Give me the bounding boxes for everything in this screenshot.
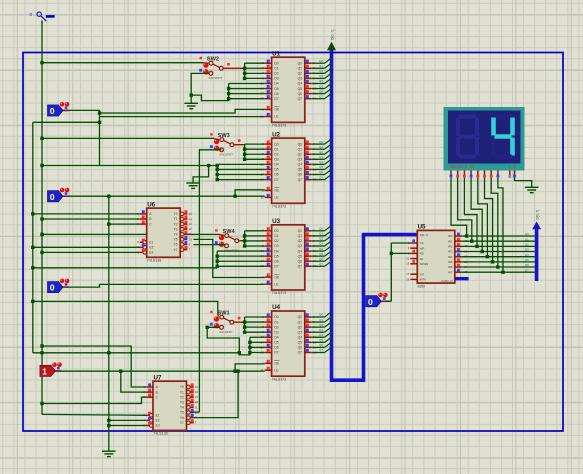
wire U5 CS from riser xyxy=(391,242,410,244)
svg-text:Q7: Q7 xyxy=(525,268,529,272)
svg-text:15: 15 xyxy=(195,385,198,389)
svg-text:Y0: Y0 xyxy=(180,385,184,389)
wire V2 left rail x=32.8 xyxy=(32,122,34,352)
wire display segment 4 to U5 IR4 xyxy=(478,178,489,259)
svg-text:OE: OE xyxy=(274,189,280,193)
bus label main xyxy=(331,30,335,40)
svg-text:IR2: IR2 xyxy=(448,245,453,249)
svg-text:Q0: Q0 xyxy=(319,140,323,144)
wire probe P4 branch to U4 OE xyxy=(233,364,264,373)
svg-text:Q1: Q1 xyxy=(319,145,323,149)
ground display xyxy=(525,187,539,192)
svg-text:D6: D6 xyxy=(274,346,278,350)
wire U5 IR rows to right bus xyxy=(462,232,535,272)
svg-text:D7: D7 xyxy=(274,97,278,101)
svg-text:Q6: Q6 xyxy=(298,173,303,177)
svg-text:WR: WR xyxy=(420,246,425,250)
wire U6 C input xyxy=(107,222,140,225)
svg-text:D0: D0 xyxy=(274,315,278,319)
svg-text:D3: D3 xyxy=(274,77,278,81)
svg-text:Q1: Q1 xyxy=(319,318,323,322)
wire V2 to P1 node xyxy=(33,117,101,166)
ground below SW2 xyxy=(184,103,198,108)
svg-text:Q4: Q4 xyxy=(298,163,303,167)
wire SW4 top throw feed from V1 xyxy=(40,233,224,236)
wire toggle to V1 xyxy=(41,21,43,23)
wire U6 Y5 to U3 OE xyxy=(193,239,264,277)
svg-text:Q0: Q0 xyxy=(319,227,323,231)
wire SW3 pole to D column xyxy=(234,144,245,146)
sheet border xyxy=(23,53,563,432)
svg-text:D3: D3 xyxy=(274,158,278,162)
svg-text:Q1: Q1 xyxy=(298,66,303,70)
svg-text:D3: D3 xyxy=(274,244,278,248)
svg-text:Y6: Y6 xyxy=(174,243,178,247)
svg-text:IR6: IR6 xyxy=(448,265,453,269)
svg-text:D[0..7]: D[0..7] xyxy=(331,30,335,40)
wire SW1 column D0-D3 xyxy=(243,317,265,334)
IC U4 74LS373 latch xyxy=(261,304,317,381)
svg-text:Q1: Q1 xyxy=(525,237,529,241)
svg-text:74LS373: 74LS373 xyxy=(272,205,286,209)
svg-text:IR1: IR1 xyxy=(448,239,453,243)
svg-text:Y3: Y3 xyxy=(174,227,178,231)
svg-text:Y4: Y4 xyxy=(180,406,184,410)
IC U2 74LS373 latch xyxy=(261,131,317,208)
svg-text:D4: D4 xyxy=(274,163,278,167)
svg-text:INT: INT xyxy=(420,272,425,276)
wire U4 Q outputs bus entries xyxy=(312,312,332,353)
svg-text:E1: E1 xyxy=(156,414,160,418)
wire probe P4 row to U4 LE xyxy=(55,370,265,372)
wire SW1 top throw feed from V2 xyxy=(31,300,219,317)
svg-text:74LS373: 74LS373 xyxy=(272,124,286,128)
svg-text:Q6: Q6 xyxy=(298,92,303,96)
svg-text:D4: D4 xyxy=(274,82,278,86)
logic probe P5 state 0 xyxy=(366,293,388,307)
IC U5 8259 interrupt controller xyxy=(406,224,468,289)
switch SW1 SPDT xyxy=(210,311,241,334)
svg-text:Q4: Q4 xyxy=(525,253,529,257)
svg-text:Q4: Q4 xyxy=(319,160,323,164)
svg-text:Q2: Q2 xyxy=(298,239,303,243)
wire U7 Y5 riser to SW3 bottom throw xyxy=(194,150,222,412)
wire row 165.5 from V1 to column xyxy=(40,164,219,167)
svg-text:8259: 8259 xyxy=(418,285,426,289)
svg-text:Q0: Q0 xyxy=(298,315,303,319)
svg-text:Y1: Y1 xyxy=(174,217,178,221)
bus arrow right xyxy=(532,221,541,229)
wire U7 E2 input xyxy=(107,419,146,422)
svg-text:Q5: Q5 xyxy=(319,252,323,256)
svg-text:IR0: IR0 xyxy=(448,234,453,238)
IC U6 74LS138 decoder xyxy=(137,201,192,262)
svg-text:15: 15 xyxy=(189,212,192,216)
svg-text:RD: RD xyxy=(420,252,424,256)
svg-text:Q7: Q7 xyxy=(319,262,323,266)
svg-text:Q3: Q3 xyxy=(298,158,303,162)
wire U7 E1 input xyxy=(42,413,146,416)
wire U6 B input xyxy=(40,217,140,220)
svg-text:Q2: Q2 xyxy=(319,323,323,327)
svg-text:Y3: Y3 xyxy=(180,401,184,405)
wire probe P5 to riser xyxy=(381,300,391,302)
wire SW1 pole to D column xyxy=(234,321,245,323)
svg-text:12: 12 xyxy=(195,400,198,404)
svg-text:D5: D5 xyxy=(274,254,278,258)
wire U6 E3 input xyxy=(40,251,140,254)
svg-text:0: 0 xyxy=(50,192,55,202)
svg-text:Q6: Q6 xyxy=(525,263,529,267)
svg-text:10: 10 xyxy=(189,237,192,241)
svg-text:Q0: Q0 xyxy=(298,61,303,65)
svg-text:Q1: Q1 xyxy=(319,64,323,68)
wire U6 A input xyxy=(31,212,140,215)
svg-text:Y5: Y5 xyxy=(180,411,184,415)
svg-text:Y2: Y2 xyxy=(174,222,178,226)
svg-text:D5: D5 xyxy=(274,168,278,172)
svg-text:E1: E1 xyxy=(149,240,153,244)
svg-text:Y2: Y2 xyxy=(180,395,184,399)
svg-text:A0: A0 xyxy=(420,257,424,261)
wire SW2 column D4-D7 xyxy=(227,83,265,100)
wire SW2 ground to D7 column xyxy=(191,95,228,101)
wire U5 RD from riser xyxy=(390,252,411,255)
wire V1 left rail x=42 xyxy=(41,21,43,415)
svg-text:Q0: Q0 xyxy=(525,232,529,236)
svg-text:D0: D0 xyxy=(274,61,278,65)
svg-text:Q0: Q0 xyxy=(319,313,323,317)
wire U7 A input riser xyxy=(40,344,146,387)
svg-text:Q3: Q3 xyxy=(319,74,323,78)
svg-text:13: 13 xyxy=(189,222,192,226)
wire U2 Q outputs bus entries xyxy=(312,139,332,180)
wire display segment 3 to U5 IR3 xyxy=(471,178,484,253)
svg-text:Q1: Q1 xyxy=(298,147,303,151)
svg-text:D1: D1 xyxy=(274,66,278,70)
svg-text:D0: D0 xyxy=(274,229,278,233)
wire V3 rail x=108.8 xyxy=(108,196,110,451)
svg-text:D1: D1 xyxy=(274,234,278,238)
svg-text:Q6: Q6 xyxy=(298,259,303,263)
svg-text:Q3: Q3 xyxy=(298,330,303,334)
svg-text:D4: D4 xyxy=(274,249,278,253)
svg-text:Y7: Y7 xyxy=(174,248,178,252)
svg-text:0: 0 xyxy=(50,283,55,293)
svg-text:U6: U6 xyxy=(147,201,155,208)
ground below SW3 xyxy=(186,183,200,188)
svg-text:11: 11 xyxy=(189,232,192,236)
svg-text:Q7: Q7 xyxy=(319,175,323,179)
wire U7 B input from P4 row xyxy=(119,370,146,393)
bus arrow main xyxy=(327,42,336,51)
logic toggle switch (logicstate) top-left xyxy=(30,12,55,21)
svg-text:CS: CS xyxy=(420,241,424,245)
svg-text:Q5: Q5 xyxy=(525,258,529,262)
wire SW2 column D0-D3 xyxy=(243,63,265,80)
wire U1 Q outputs bus entries xyxy=(312,58,332,99)
svg-text:Q4: Q4 xyxy=(319,333,323,337)
wire display segment 5 to U5 IR5 xyxy=(485,178,495,264)
svg-text:21: 21 xyxy=(406,257,409,261)
svg-text:12: 12 xyxy=(189,227,192,231)
wire probe P2 row to U2 LE xyxy=(61,195,265,197)
wire to ground below SW3 xyxy=(193,166,209,184)
svg-text:IR5: IR5 xyxy=(448,260,453,264)
svg-text:Y7: Y7 xyxy=(180,421,184,425)
switch SW2 SPDT xyxy=(199,57,230,80)
wire U3 Q outputs bus entries xyxy=(312,226,332,267)
logic probe P1 state 0 xyxy=(48,102,70,116)
wire SW2 bottom throw to ground xyxy=(190,73,209,96)
svg-text:Q7: Q7 xyxy=(298,178,303,182)
svg-text:Q4: Q4 xyxy=(298,335,303,339)
wire SW3 column D0-D3 xyxy=(243,144,265,161)
svg-text:Q0: Q0 xyxy=(298,229,303,233)
svg-text:Y1: Y1 xyxy=(180,390,184,394)
svg-text:U3: U3 xyxy=(272,218,280,225)
svg-text:Q7: Q7 xyxy=(319,348,323,352)
wire SW2 ground stem xyxy=(190,95,192,103)
svg-text:SP/EN: SP/EN xyxy=(420,262,428,266)
svg-text:Q7: Q7 xyxy=(298,97,303,101)
svg-text:Q4: Q4 xyxy=(298,249,303,253)
svg-text:Y4: Y4 xyxy=(174,233,178,237)
svg-text:D6: D6 xyxy=(274,259,278,263)
svg-text:11: 11 xyxy=(195,405,198,409)
wire SW1 column D4-D7 xyxy=(248,337,265,354)
svg-text:D5: D5 xyxy=(274,87,278,91)
wire SW4 pole to D column xyxy=(239,240,245,242)
svg-text:Q5: Q5 xyxy=(298,168,303,172)
svg-text:Q6: Q6 xyxy=(319,89,323,93)
ground below U7 on V3 xyxy=(102,451,116,456)
7-segment display xyxy=(444,107,525,171)
svg-text:SW3: SW3 xyxy=(218,133,230,139)
svg-text:D6: D6 xyxy=(274,92,278,96)
wire probe P2 branch to U2 OE xyxy=(233,190,264,198)
svg-text:Q1: Q1 xyxy=(298,320,303,324)
wire U6 E2 input xyxy=(31,246,140,249)
svg-text:D7: D7 xyxy=(274,264,278,268)
wire probe P1 row to U1 LE xyxy=(61,110,265,116)
svg-text:Y0: Y0 xyxy=(174,212,178,216)
wire display segment 6 to U5 IR6 xyxy=(491,178,499,269)
svg-text:CAS[0..2]: CAS[0..2] xyxy=(441,279,452,283)
svg-text:Q3: Q3 xyxy=(319,328,323,332)
svg-text:10: 10 xyxy=(195,410,198,414)
svg-text:D2: D2 xyxy=(274,239,278,243)
bus label right xyxy=(536,210,540,220)
svg-text:Y6: Y6 xyxy=(180,416,184,420)
wire U6 Y6 to SW4 bottom throw xyxy=(193,245,224,246)
svg-text:0: 0 xyxy=(368,297,373,307)
svg-text:D0: D0 xyxy=(274,142,278,146)
svg-text:D6: D6 xyxy=(274,173,278,177)
svg-text:D7: D7 xyxy=(274,178,278,182)
svg-text:U7: U7 xyxy=(154,374,162,381)
svg-text:1: 1 xyxy=(42,367,47,377)
wire U7 E3 input xyxy=(107,424,146,427)
svg-text:Q3: Q3 xyxy=(298,77,303,81)
svg-text:Q6: Q6 xyxy=(319,343,323,347)
bus D[0..7] main vertical + to U5 xyxy=(332,46,417,381)
svg-text:E2: E2 xyxy=(156,419,160,423)
wire SW3 top throw feed from V1 xyxy=(40,137,219,140)
svg-text:Q5: Q5 xyxy=(298,254,303,258)
wire SW2 pole to D column xyxy=(223,67,245,69)
svg-text:Q4: Q4 xyxy=(319,79,323,83)
svg-text:1 2: 1 2 xyxy=(509,166,517,170)
svg-text:D1: D1 xyxy=(274,320,278,324)
svg-text:SW-SPDT: SW-SPDT xyxy=(219,153,233,157)
svg-text:Q4: Q4 xyxy=(298,82,303,86)
wire SW4 column D4-D7 xyxy=(216,251,265,268)
svg-text:Q3: Q3 xyxy=(319,155,323,159)
svg-text:Q5: Q5 xyxy=(298,87,303,91)
svg-text:Q5: Q5 xyxy=(319,165,323,169)
svg-text:Q6: Q6 xyxy=(319,170,323,174)
svg-text:Q0: Q0 xyxy=(319,59,323,63)
svg-text:E2: E2 xyxy=(149,246,153,250)
svg-text:14: 14 xyxy=(195,390,198,394)
svg-text:Q3: Q3 xyxy=(319,242,323,246)
wire display segment 2 to U5 IR2 xyxy=(464,178,478,248)
svg-text:ABCDEFG DP: ABCDEFG DP xyxy=(451,166,476,170)
bus CAS[0..2] stub xyxy=(455,277,469,280)
svg-text:0: 0 xyxy=(30,12,33,17)
svg-text:Q7: Q7 xyxy=(298,264,303,268)
svg-text:Q2: Q2 xyxy=(298,152,303,156)
svg-text:Q2: Q2 xyxy=(298,325,303,329)
wire display segment 1 to U5 IR1 xyxy=(458,178,474,243)
svg-text:Q3: Q3 xyxy=(525,248,529,252)
wire probe P3 row to U3 LE xyxy=(61,284,265,287)
svg-text:Q1: Q1 xyxy=(298,234,303,238)
svg-text:74LS138: 74LS138 xyxy=(153,432,167,436)
svg-text:U4: U4 xyxy=(272,304,280,311)
wire display cathodes to ground xyxy=(515,178,532,188)
svg-text:D1: D1 xyxy=(274,147,278,151)
svg-text:13: 13 xyxy=(195,395,198,399)
svg-text:D[0..7]: D[0..7] xyxy=(536,210,540,220)
wire SW3 column D4-D7 xyxy=(216,164,265,181)
svg-text:Q5: Q5 xyxy=(319,338,323,342)
svg-text:74LS373: 74LS373 xyxy=(272,377,286,381)
bus right IR vertical xyxy=(535,229,539,281)
svg-text:Q2: Q2 xyxy=(319,69,323,73)
svg-text:Q6: Q6 xyxy=(298,346,303,350)
wire row 267.8 from V2 to column xyxy=(31,266,217,269)
svg-text:Q2: Q2 xyxy=(525,243,529,247)
svg-text:U2: U2 xyxy=(272,131,280,138)
svg-text:INTA: INTA xyxy=(420,278,426,282)
svg-text:IR7: IR7 xyxy=(448,270,453,274)
svg-text:IR3: IR3 xyxy=(448,250,453,254)
svg-text:Q4: Q4 xyxy=(319,247,323,251)
switch SW4 SPDT xyxy=(215,229,246,252)
svg-text:0: 0 xyxy=(50,106,55,116)
svg-text:D3: D3 xyxy=(274,330,278,334)
wire SW4 column D0-D3 xyxy=(243,231,265,248)
wire SW1 bottom throw via 207 column xyxy=(206,326,240,353)
svg-text:D2: D2 xyxy=(274,152,278,156)
svg-text:E3: E3 xyxy=(156,424,160,428)
svg-text:74LS373: 74LS373 xyxy=(272,291,286,295)
svg-text:D2: D2 xyxy=(274,72,278,76)
svg-text:26: 26 xyxy=(406,277,409,281)
svg-text:Q0: Q0 xyxy=(298,142,303,146)
svg-text:OE: OE xyxy=(274,362,280,366)
svg-text:D5: D5 xyxy=(274,341,278,345)
IC U3 74LS373 latch xyxy=(261,218,317,295)
svg-text:Y5: Y5 xyxy=(174,238,178,242)
svg-text:17: 17 xyxy=(406,272,409,276)
svg-text:D[0..7]: D[0..7] xyxy=(420,233,428,237)
svg-text:Q5: Q5 xyxy=(319,84,323,88)
svg-text:SW-SPDT: SW-SPDT xyxy=(219,330,233,334)
svg-text:Q2: Q2 xyxy=(319,237,323,241)
svg-text:Q7: Q7 xyxy=(319,94,323,98)
svg-text:SW-SPDT: SW-SPDT xyxy=(209,76,223,80)
svg-text:Q2: Q2 xyxy=(298,72,303,76)
svg-text:Q3: Q3 xyxy=(298,244,303,248)
svg-text:Q5: Q5 xyxy=(298,341,303,345)
svg-text:E3: E3 xyxy=(149,251,153,255)
op-amp U1 74LS373 latch xyxy=(261,50,317,127)
wire U7 C input jog xyxy=(40,397,146,405)
logic probe P4 state 1 xyxy=(40,362,62,376)
svg-text:D7: D7 xyxy=(274,351,278,355)
wire U7 Y6 riser to P4 row xyxy=(194,370,240,418)
svg-text:Q7: Q7 xyxy=(298,351,303,355)
svg-text:SW2: SW2 xyxy=(207,57,219,63)
svg-text:U1: U1 xyxy=(272,50,280,57)
display pin stubs xyxy=(450,171,516,178)
svg-text:OE: OE xyxy=(274,108,280,112)
IC U7 74LS138 decoder xyxy=(144,374,199,435)
svg-text:16: 16 xyxy=(406,262,409,266)
logic probe P3 state 0 xyxy=(48,279,70,293)
wire riser x=391 xyxy=(390,243,392,301)
svg-text:14: 14 xyxy=(189,217,192,221)
svg-text:Q2: Q2 xyxy=(319,150,323,154)
svg-text:Q6: Q6 xyxy=(319,257,323,261)
wire row 352.8 colB feed xyxy=(33,351,250,355)
svg-text:OE: OE xyxy=(274,275,280,279)
wire SW2 top throw feed from V1 xyxy=(40,61,208,64)
svg-text:D2: D2 xyxy=(274,325,278,329)
svg-text:U5: U5 xyxy=(418,224,426,231)
svg-text:Q1: Q1 xyxy=(319,232,323,236)
wire V3 top junction xyxy=(107,195,110,198)
svg-text:74LS138: 74LS138 xyxy=(147,259,161,263)
logic probe P2 state 0 xyxy=(48,188,70,202)
wire display segment 0 to U5 IR0 xyxy=(451,178,468,238)
switch SW3 SPDT xyxy=(210,133,241,156)
svg-text:SW4: SW4 xyxy=(223,229,236,235)
wire display segment 7 to U5 IR7 xyxy=(498,178,505,274)
svg-text:D4: D4 xyxy=(274,335,278,339)
wire probe P1 branch to U1 OE xyxy=(98,109,265,114)
svg-text:IR4: IR4 xyxy=(448,255,453,259)
